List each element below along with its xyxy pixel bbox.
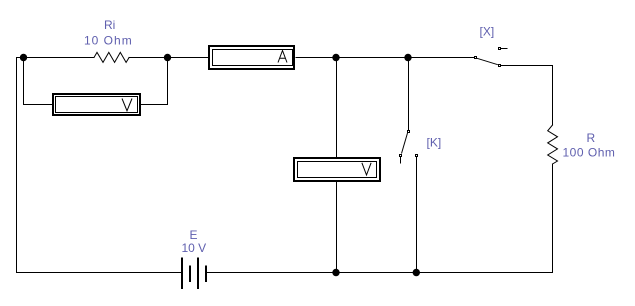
- svg-text:100 Ohm: 100 Ohm: [563, 146, 616, 160]
- wire top rail: node A to resistor Ri: [24, 57, 95, 59]
- switch K (middle, open): [400, 131, 418, 164]
- svg-text:E: E: [190, 228, 198, 242]
- wire: left rail: [16, 58, 18, 273]
- switch X (top right, blade to lower throw): [475, 48, 508, 67]
- wire: node D to switch X pole: [408, 57, 474, 59]
- svg-text:Ri: Ri: [104, 18, 115, 32]
- wire: node C down to voltmeter V2: [336, 58, 338, 158]
- junction node F (bottom, below K): [413, 269, 420, 276]
- wire top rail: corner to node A: [17, 57, 24, 59]
- svg-text:10 V: 10 V: [182, 241, 207, 255]
- wire: right rail lower segment: [552, 164, 554, 273]
- wire: voltmeter V2 down to node E1: [336, 182, 338, 273]
- svg-text:10 Ohm: 10 Ohm: [84, 34, 133, 48]
- resistor Ri (10 Ohm) zigzag: [94, 52, 129, 62]
- battery E (10 V): [182, 258, 206, 290]
- junction node B (right of Ri): [164, 54, 171, 61]
- svg-text:R: R: [587, 131, 596, 145]
- junction node D (top, above K): [404, 54, 411, 61]
- junction node C (top, above V2): [332, 54, 339, 61]
- voltmeter V2 (across battery branch): [294, 158, 380, 181]
- wire: switch X throw to top-right corner: [501, 65, 553, 67]
- resistor R (100 Ohm) zigzag: [548, 125, 558, 164]
- svg-text:[K]: [K]: [427, 136, 442, 150]
- wire: node A down and right to voltmeter V1: [24, 58, 53, 105]
- wire: bottom rail left of battery: [17, 272, 181, 274]
- wire: Ri to ammeter: [129, 57, 208, 59]
- junction node A (top-left): [20, 54, 27, 61]
- wire: node D down to switch K pole: [408, 58, 410, 131]
- ammeter U1 (A): [209, 46, 294, 69]
- wire: voltmeter V1 to node B: [141, 58, 168, 105]
- wire: right rail upper segment: [552, 66, 554, 126]
- wire: switch K contact down to node F: [416, 157, 418, 273]
- wire: bottom rail right of battery: [207, 272, 552, 274]
- wire: node C to node D: [336, 57, 408, 59]
- svg-text:[X]: [X]: [480, 25, 495, 39]
- voltmeter V1 (parallel with Ri): [53, 94, 140, 115]
- wire: ammeter to node C: [296, 57, 336, 59]
- junction node E1 (bottom, below V2): [332, 269, 339, 276]
